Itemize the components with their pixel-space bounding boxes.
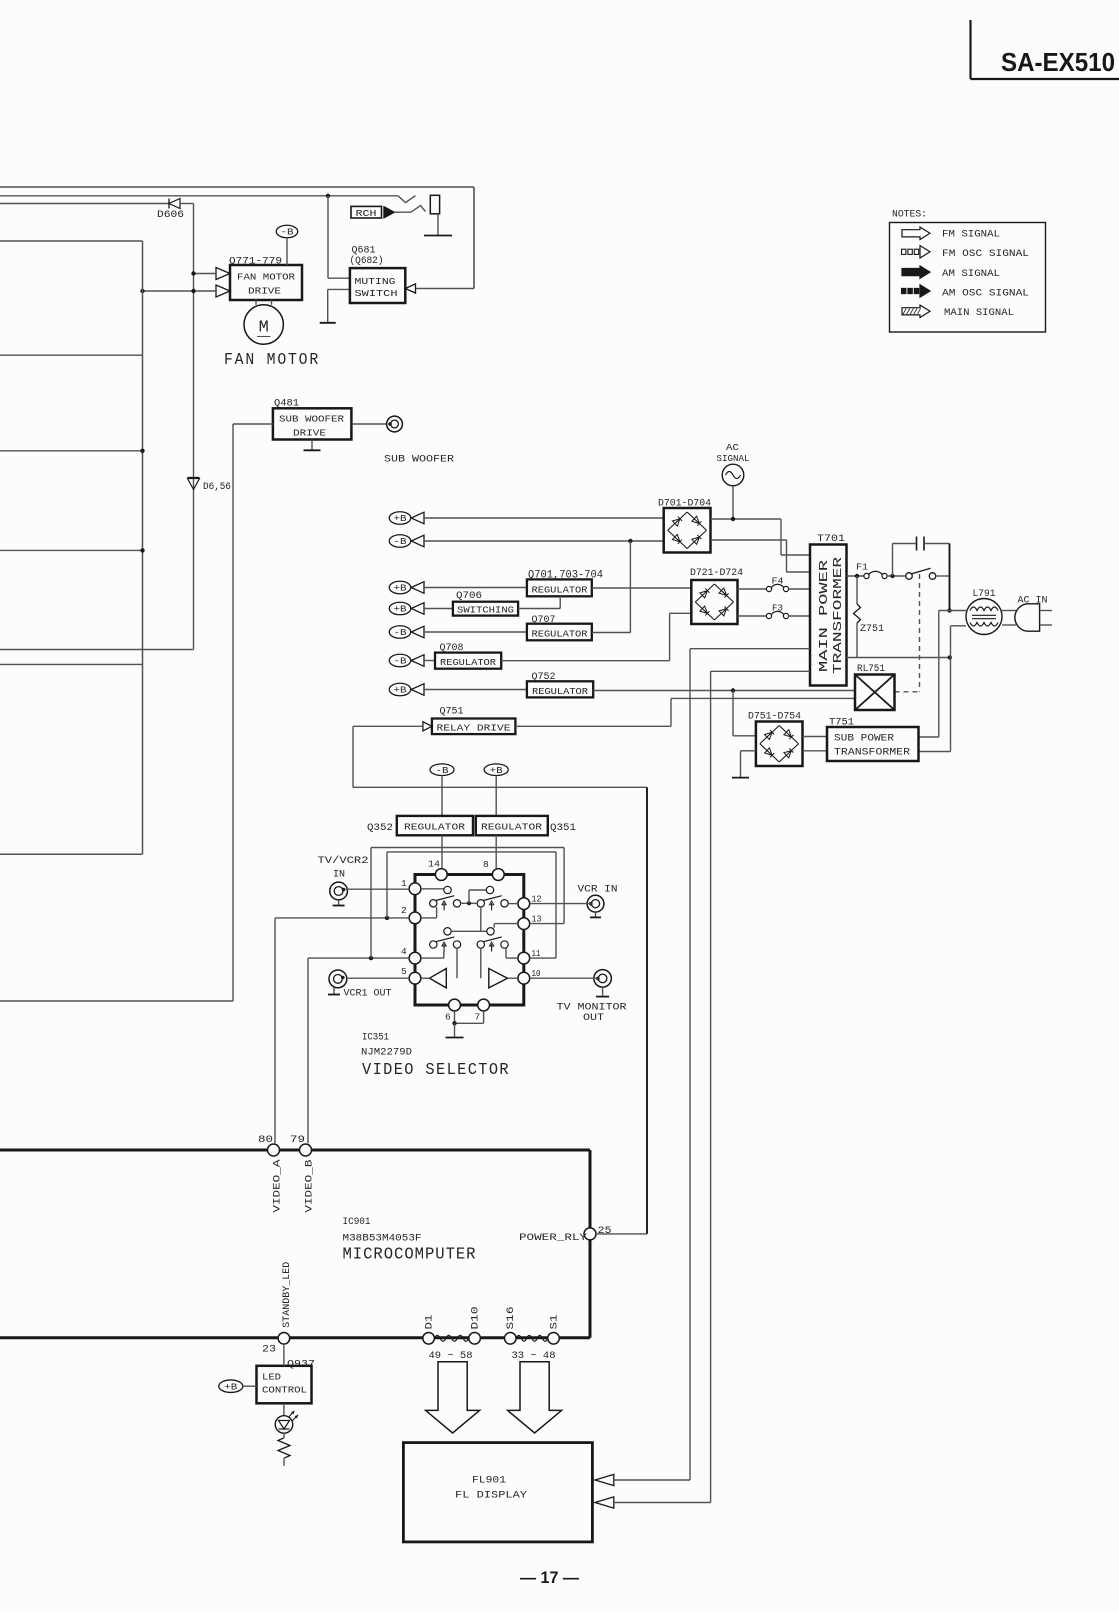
svg-text:RELAY DRIVE: RELAY DRIVE bbox=[437, 723, 511, 734]
svg-text:10: 10 bbox=[532, 968, 541, 979]
svg-text:(Q682): (Q682) bbox=[350, 255, 384, 267]
svg-text:TRANSFORMER: TRANSFORMER bbox=[834, 747, 910, 758]
svg-text:OUT: OUT bbox=[583, 1012, 604, 1024]
svg-text:DRIVE: DRIVE bbox=[293, 428, 326, 439]
svg-text:11: 11 bbox=[532, 948, 541, 959]
svg-text:FL DISPLAY: FL DISPLAY bbox=[455, 1490, 528, 1502]
svg-text:13: 13 bbox=[532, 914, 542, 925]
svg-text:D6,56: D6,56 bbox=[203, 481, 231, 493]
svg-text:IC351: IC351 bbox=[362, 1032, 389, 1044]
svg-text:REGULATOR: REGULATOR bbox=[481, 821, 542, 832]
svg-text:1: 1 bbox=[401, 878, 407, 889]
svg-text:REGULATOR: REGULATOR bbox=[532, 686, 588, 697]
svg-text:Q751: Q751 bbox=[440, 706, 464, 718]
svg-text:VIDEO SELECTOR: VIDEO SELECTOR bbox=[362, 1060, 510, 1079]
svg-text:33 ~ 48: 33 ~ 48 bbox=[512, 1350, 556, 1362]
svg-text:IC901: IC901 bbox=[343, 1216, 371, 1228]
svg-text:AM OSC SIGNAL: AM OSC SIGNAL bbox=[942, 287, 1029, 299]
svg-text:Q351: Q351 bbox=[550, 822, 576, 834]
svg-text:14: 14 bbox=[428, 859, 440, 870]
svg-text:SWITCH: SWITCH bbox=[355, 288, 398, 299]
svg-text:REGULATOR: REGULATOR bbox=[532, 629, 588, 640]
svg-text:FL901: FL901 bbox=[472, 1475, 506, 1487]
svg-text:SA-EX510: SA-EX510 bbox=[1001, 49, 1115, 77]
svg-text:80: 80 bbox=[258, 1134, 273, 1146]
svg-text:D606: D606 bbox=[157, 209, 184, 221]
svg-text:FM OSC SIGNAL: FM OSC SIGNAL bbox=[942, 248, 1029, 260]
svg-text:MAIN POWER: MAIN POWER bbox=[818, 560, 831, 672]
svg-text:+B: +B bbox=[394, 514, 408, 524]
svg-text:VCR1 OUT: VCR1 OUT bbox=[344, 988, 392, 1000]
svg-text:-B: -B bbox=[436, 766, 450, 776]
svg-text:SUB WOOFER: SUB WOOFER bbox=[384, 454, 455, 466]
svg-text:D1: D1 bbox=[425, 1315, 436, 1330]
svg-text:2: 2 bbox=[401, 905, 407, 916]
svg-text:-B: -B bbox=[281, 228, 295, 238]
svg-text:TV/VCR2: TV/VCR2 bbox=[318, 855, 369, 867]
svg-text:STANDBY_LED: STANDBY_LED bbox=[282, 1262, 293, 1328]
svg-text:NOTES:: NOTES: bbox=[892, 209, 927, 221]
svg-text:FM SIGNAL: FM SIGNAL bbox=[942, 229, 1000, 241]
svg-text:M: M bbox=[259, 319, 269, 338]
svg-text:AC: AC bbox=[726, 442, 739, 453]
svg-text:POWER_RLY: POWER_RLY bbox=[519, 1232, 588, 1244]
svg-text:REGULATOR: REGULATOR bbox=[440, 657, 496, 668]
svg-text:Q352: Q352 bbox=[367, 822, 393, 834]
svg-text:T701: T701 bbox=[817, 533, 845, 545]
svg-text:NJM2279D: NJM2279D bbox=[361, 1047, 412, 1059]
svg-text:SWITCHING: SWITCHING bbox=[457, 605, 514, 616]
svg-text:+B: +B bbox=[394, 686, 408, 696]
svg-text:5: 5 bbox=[401, 966, 407, 977]
svg-text:-B: -B bbox=[394, 537, 408, 547]
svg-text:+B: +B bbox=[490, 766, 504, 776]
svg-text:SUB WOOFER: SUB WOOFER bbox=[279, 414, 344, 425]
svg-text:REGULATOR: REGULATOR bbox=[532, 585, 588, 596]
svg-text:MUTING: MUTING bbox=[355, 276, 396, 287]
svg-text:D10: D10 bbox=[471, 1307, 482, 1330]
svg-text:-B: -B bbox=[394, 628, 408, 638]
svg-text:TRANSFORMER: TRANSFORMER bbox=[832, 557, 845, 674]
svg-text:6: 6 bbox=[445, 1012, 451, 1023]
svg-text:SUB POWER: SUB POWER bbox=[834, 733, 894, 744]
svg-text:+B: +B bbox=[394, 605, 408, 615]
svg-text:FAN MOTOR: FAN MOTOR bbox=[224, 350, 320, 369]
svg-text:M38B53M4053F: M38B53M4053F bbox=[343, 1233, 422, 1245]
svg-text:— 17 —: — 17 — bbox=[520, 1568, 579, 1587]
svg-text:Q681: Q681 bbox=[352, 245, 376, 256]
svg-text:79: 79 bbox=[290, 1134, 305, 1146]
svg-text:REGULATOR: REGULATOR bbox=[404, 821, 465, 832]
svg-text:VCR IN: VCR IN bbox=[578, 884, 618, 896]
svg-text:+B: +B bbox=[394, 584, 408, 594]
svg-text:SIGNAL: SIGNAL bbox=[717, 453, 750, 464]
svg-text:AM SIGNAL: AM SIGNAL bbox=[942, 268, 1000, 280]
svg-text:RL751: RL751 bbox=[857, 663, 885, 675]
svg-text:Z751: Z751 bbox=[860, 623, 884, 635]
svg-text:DRIVE: DRIVE bbox=[248, 286, 281, 297]
svg-text:CONTROL: CONTROL bbox=[262, 1385, 307, 1396]
svg-text:LED: LED bbox=[262, 1372, 281, 1383]
svg-text:49 ~ 58: 49 ~ 58 bbox=[429, 1350, 473, 1362]
svg-text:+B: +B bbox=[224, 1382, 238, 1392]
svg-text:IN: IN bbox=[333, 869, 345, 881]
svg-text:7: 7 bbox=[475, 1012, 481, 1023]
svg-text:4: 4 bbox=[401, 946, 407, 957]
svg-text:8: 8 bbox=[483, 859, 489, 870]
svg-text:D721-D724: D721-D724 bbox=[690, 567, 743, 579]
svg-text:VIDEO_A: VIDEO_A bbox=[272, 1159, 284, 1213]
svg-text:RCH: RCH bbox=[356, 208, 377, 219]
svg-text:12: 12 bbox=[532, 894, 542, 905]
svg-text:Q706: Q706 bbox=[456, 590, 482, 602]
svg-text:F1: F1 bbox=[856, 562, 868, 573]
svg-text:25: 25 bbox=[598, 1225, 612, 1237]
svg-text:FAN MOTOR: FAN MOTOR bbox=[237, 272, 295, 283]
svg-text:23: 23 bbox=[262, 1344, 276, 1356]
svg-text:VIDEO_B: VIDEO_B bbox=[304, 1160, 316, 1213]
svg-text:S16: S16 bbox=[506, 1307, 517, 1330]
svg-text:S1: S1 bbox=[550, 1315, 561, 1330]
svg-text:-B: -B bbox=[394, 657, 408, 667]
svg-text:MAIN SIGNAL: MAIN SIGNAL bbox=[944, 307, 1014, 319]
svg-text:MICROCOMPUTER: MICROCOMPUTER bbox=[343, 1245, 477, 1264]
